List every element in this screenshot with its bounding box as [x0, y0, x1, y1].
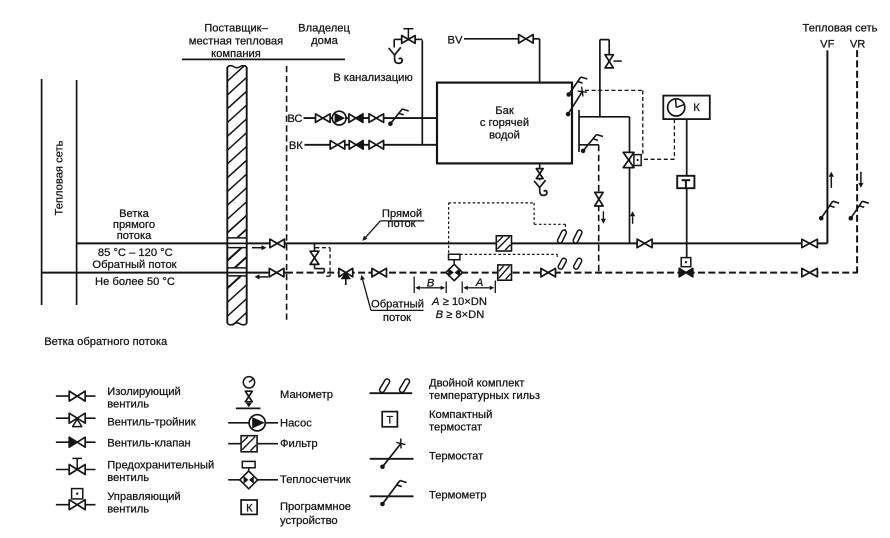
svg-text:ВС: ВС	[287, 113, 302, 125]
svg-text:вентиль: вентиль	[107, 472, 149, 484]
svg-text:Насос: Насос	[280, 417, 312, 429]
svg-text:Ветка обратного потока: Ветка обратного потока	[44, 336, 168, 348]
svg-text:К: К	[693, 102, 700, 114]
svg-text:Компактный: Компактный	[429, 409, 492, 421]
svg-text:85 °C – 120 °C: 85 °C – 120 °C	[98, 247, 173, 259]
svg-text:Манометр: Манометр	[280, 389, 333, 401]
svg-text:дома: дома	[311, 35, 338, 47]
svg-text:температурных гильз: температурных гильз	[429, 390, 540, 402]
svg-text:Поставщик–: Поставщик–	[204, 23, 268, 35]
svg-text:Термостат: Термостат	[429, 451, 483, 463]
svg-text:B ≥ 8×DN: B ≥ 8×DN	[436, 309, 485, 321]
svg-text:Владелец: Владелец	[298, 23, 350, 35]
svg-text:Управляющий: Управляющий	[107, 491, 180, 503]
svg-text:Термометр: Термометр	[429, 489, 486, 501]
svg-text:вентиль: вентиль	[107, 398, 149, 410]
svg-text:Т: Т	[387, 415, 394, 427]
svg-text:водой: водой	[489, 130, 520, 142]
svg-text:VF: VF	[820, 39, 834, 51]
svg-text:VR: VR	[850, 39, 866, 51]
svg-text:В канализацию: В канализацию	[333, 72, 413, 84]
svg-text:местная тепловая: местная тепловая	[189, 36, 283, 48]
svg-text:Предохранительный: Предохранительный	[107, 459, 214, 471]
svg-text:компания: компания	[211, 48, 261, 60]
svg-text:К: К	[246, 503, 253, 515]
svg-text:Фильтр: Фильтр	[280, 438, 318, 450]
svg-text:A ≥ 10×DN: A ≥ 10×DN	[431, 296, 487, 308]
svg-text:ВК: ВК	[289, 140, 303, 152]
svg-text:Двойной комплект: Двойной комплект	[429, 378, 525, 390]
svg-text:с горячей: с горячей	[480, 117, 529, 129]
svg-text:BV: BV	[448, 34, 463, 46]
svg-text:A: A	[475, 277, 484, 289]
svg-text:вентиль: вентиль	[107, 503, 149, 515]
svg-text:Вентиль-клапан: Вентиль-клапан	[107, 437, 191, 449]
svg-text:Изолирующий: Изолирующий	[107, 386, 181, 398]
svg-text:Не более 50 °C: Не более 50 °C	[95, 276, 175, 288]
svg-text:потока: потока	[117, 230, 152, 242]
svg-text:Тепловая сеть: Тепловая сеть	[803, 22, 878, 34]
svg-text:Обратный поток: Обратный поток	[92, 259, 176, 271]
svg-text:Бак: Бак	[495, 105, 514, 117]
svg-text:поток: поток	[383, 312, 411, 324]
svg-text:Теплосчетчик: Теплосчетчик	[280, 474, 351, 486]
svg-text:поток: поток	[387, 218, 415, 230]
svg-text:Вентиль-тройник: Вентиль-тройник	[107, 416, 196, 428]
svg-text:Программное: Программное	[280, 501, 351, 513]
svg-text:Тепловая сеть: Тепловая сеть	[54, 140, 66, 215]
svg-text:термостат: термостат	[429, 421, 482, 433]
svg-text:Обратный: Обратный	[371, 298, 424, 310]
svg-text:устройство: устройство	[280, 515, 338, 527]
svg-text:B: B	[427, 278, 435, 290]
